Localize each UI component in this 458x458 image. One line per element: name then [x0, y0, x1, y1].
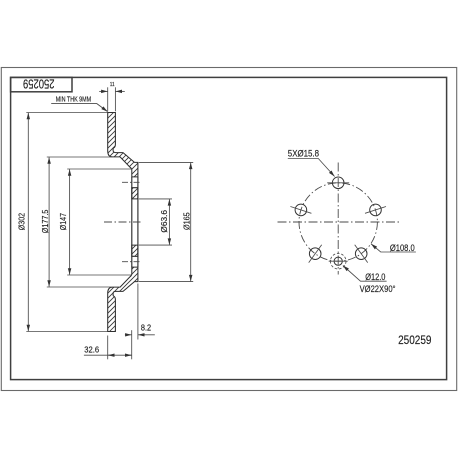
vertical centerline [337, 163, 339, 275]
part number box [11, 77, 72, 91]
svg-text:Ø63.6: Ø63.6 [159, 210, 169, 233]
countersink D22 dashed circle [330, 253, 346, 269]
svg-text:Ø165: Ø165 [181, 212, 191, 230]
outer border frame [1, 68, 456, 391]
dimension 11 extension lines [107, 87, 109, 111]
dimension D302 extension top [26, 112, 107, 114]
centre bore right face line [137, 177, 139, 267]
dimension 8.2 extension right [137, 284, 139, 340]
bolt hole lower-right [355, 248, 367, 260]
inner border frame [11, 77, 447, 379]
svg-text:MIN THK 9MM: MIN THK 9MM [56, 97, 92, 104]
bolt circle D108 [299, 183, 377, 261]
svg-text:Ø108.0: Ø108.0 [390, 243, 415, 253]
dimension D165 extension bottom [139, 281, 193, 283]
svg-text:32.6: 32.6 [84, 345, 99, 354]
dimension D63.6 line [168, 199, 170, 245]
svg-text:Ø177.5: Ø177.5 [40, 209, 50, 233]
dimension 8.2 [125, 334, 132, 336]
svg-text:8.2: 8.2 [141, 324, 151, 333]
dimension 32.6 [84, 354, 132, 356]
bolt hole upper-left [295, 204, 307, 216]
dimension D63.6 extension top [139, 198, 172, 200]
dimension D147 extension top [67, 168, 131, 170]
locating hole D12 (bottom) [334, 257, 342, 265]
svg-text:250259: 250259 [23, 77, 55, 91]
dimension 8.2 extension left [131, 330, 133, 359]
dimension D302 line [27, 113, 29, 332]
bolt hole upper-right [370, 204, 382, 216]
dimension D177.5 extension top [47, 156, 112, 158]
dimension 32.6 extension left [107, 336, 109, 360]
svg-text:250259: 250259 [398, 333, 431, 347]
flange segment between centre bore and bolt hole (bottom) [132, 245, 138, 256]
dimension D302 extension bottom [26, 331, 107, 333]
disc section upper half (hatched) [108, 113, 138, 332]
dimension D165 extension top [139, 161, 193, 163]
dimension 11 [99, 90, 107, 92]
dimension D165 line [190, 163, 192, 282]
svg-text:5XØ15.8: 5XØ15.8 [288, 148, 319, 158]
bolt hole top [332, 177, 344, 189]
bolt hole centerline (section, top) [122, 181, 141, 183]
svg-text:VØ22X90°: VØ22X90° [360, 284, 396, 294]
flange segment between bolt hole and centre bore (top) [132, 188, 138, 199]
svg-text:Ø147: Ø147 [58, 213, 68, 230]
bolt hole lower-left [309, 248, 321, 260]
dimension D147 extension bottom [67, 274, 131, 276]
svg-text:Ø302: Ø302 [17, 213, 27, 231]
bolt hole centerline (section, bottom) [122, 261, 141, 263]
svg-text:11: 11 [110, 82, 115, 88]
dimension D177.5 extension bottom [47, 286, 112, 288]
disc section lower half (hatched) [108, 267, 138, 331]
section hatching [0, 104, 372, 340]
section axis centerline [104, 221, 141, 223]
dimension D147 line [69, 169, 71, 275]
centre bore left face line [131, 177, 133, 267]
dimension D177.5 line [48, 157, 50, 287]
dimension D63.6 extension bottom [139, 244, 172, 246]
horizontal centerline [278, 221, 401, 223]
svg-text:Ø12.0: Ø12.0 [365, 272, 385, 282]
